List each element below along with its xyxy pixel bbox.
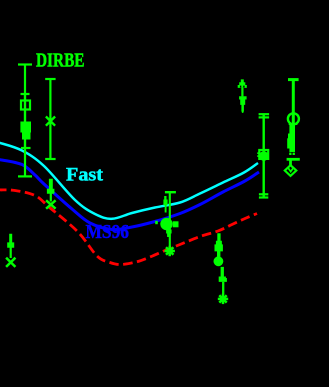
C1 vertical line [169,192,171,246]
B2 open square marker [259,150,268,159]
B2 vertical line [263,114,265,198]
C1 small filled square (right) [173,221,179,227]
error bar E2 top cap [21,93,30,95]
C1 down arrowhead chunk below circle [166,230,172,238]
svg-text:DIRBE: DIRBE [36,50,85,72]
error bar E1 bottom cap [21,147,31,149]
B1 short shaft to diamond [289,159,292,165]
error bar E1 (DIRBE, open square marker) vertical line [24,65,26,149]
cyan model curve Fast [0,142,258,219]
lower limit arrow A2 with cross marker (x=11) [6,234,15,267]
B1 open diamond marker [285,165,297,176]
B2 top cap 1 [259,113,270,115]
C1 top cap [165,191,176,193]
B1 mid cap [289,123,298,125]
svg-text:Fast: Fast [66,165,104,186]
lower limit arrow A1 with cross marker (x=51) [46,179,56,209]
C1 filled circle marker [160,218,172,230]
C1 up arrow (offset left) [163,196,167,205]
cross marker on E3 [46,117,55,126]
B1 top cap [288,78,299,81]
cluster C1 (x=170): error bar with cap, up arrow, filled circle, star [155,192,178,256]
error bar E3 top cap [45,78,55,80]
error bar E1 top cap [18,63,32,65]
B1 open circle marker [288,113,299,124]
B2 bottom cap 1 [259,193,268,195]
B1 vertical line [292,80,295,152]
open square marker on E1 [21,101,30,110]
B1 filled column (overlapping squares) [289,125,295,152]
B2 filled circle inside square [259,151,269,161]
error bar B2 (x=262, double caps, square+circle marker) [257,114,269,198]
error bar E3 bottom cap [45,158,55,160]
B2 bottom cap 2 [259,196,268,198]
C1 horizontal bar left nub [155,221,158,224]
filled square markers on E2 [20,122,31,140]
big right error bar B1 (x=293, circle marker, diamond limit) [285,80,300,176]
red dashed model curve [0,190,257,265]
B2 top cap 2 [259,116,270,118]
lower limit arrow A4 with star (x=223) [218,267,228,304]
double-headed arrow D1 (x=242) [238,79,247,113]
C1 star marker [165,246,175,256]
error bar E2 (DIRBE, filled square marker) vertical line [24,94,26,176]
blue thick model curve MS96 [0,159,259,229]
B1 two dots below column [289,153,291,155]
svg-text:MS96: MS96 [86,222,130,243]
error bar E2 bottom cap [18,175,32,177]
error bar E3 (DIRBE, cross marker) vertical line [49,79,51,159]
B1 arrowhead chevron inside diamond [288,168,293,172]
B1 lower cap [287,158,300,161]
lower limit arrow A3 with filled circle (x=219) [214,233,224,266]
B2 star arm nubs left [257,152,259,154]
